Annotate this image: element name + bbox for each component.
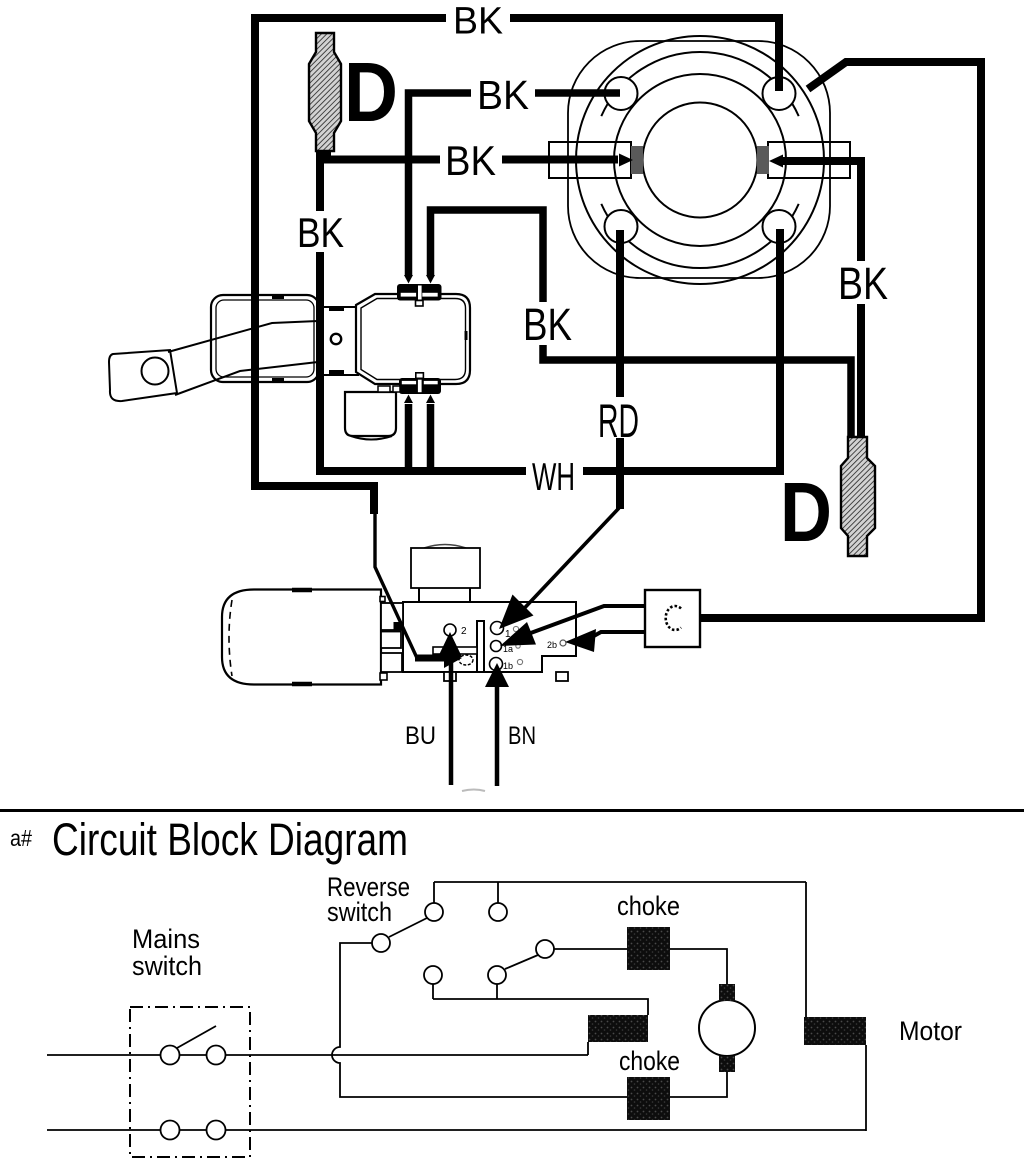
reverse switch top rail: [434, 882, 806, 903]
reverse switch circle C: [372, 934, 390, 952]
choke middle block: [588, 1015, 648, 1042]
switch terminal clip bar bottom: [399, 378, 441, 394]
brush holder left: [549, 142, 631, 178]
wire C lower to terminal 2b: [592, 632, 645, 637]
svg-text:BK: BK: [297, 209, 344, 256]
trigger mid pivot: [331, 334, 341, 344]
brush D1 top-left: [309, 33, 341, 151]
wire BK3 brush1 to left brush holder: [327, 150, 618, 160]
wire C upper to terminal 1a: [528, 606, 645, 634]
switch terminal clip bar top: [397, 284, 442, 301]
mains switch pole top circles: [161, 1046, 180, 1065]
controller foot right: [556, 672, 568, 681]
field coil top outer arc: [601, 52, 798, 116]
svg-text:choke: choke: [619, 1046, 680, 1076]
terminal 2b left: [459, 655, 473, 665]
interface rect C: [381, 653, 402, 672]
controller knob cap: [424, 545, 466, 549]
interface rect B: [381, 632, 401, 649]
field stator lamination square: [568, 41, 830, 278]
controller step line: [542, 655, 577, 657]
wire BN arrow: [495, 684, 500, 786]
wire BU arrow: [449, 654, 454, 785]
coil mount rects: [378, 386, 400, 392]
motor brush top: [719, 984, 735, 1001]
svg-text:BU: BU: [405, 722, 436, 750]
wire WH horizontal: [316, 467, 784, 475]
switch coil cylinder: [345, 392, 396, 436]
svg-text:BK: BK: [523, 299, 572, 350]
arrow C to terminal 2b: [565, 629, 596, 652]
wire BK main top loop: [255, 18, 779, 514]
svg-text:Circuit Block Diagram: Circuit Block Diagram: [52, 814, 408, 865]
field stator outer circle: [576, 36, 824, 284]
interface tiny top: [380, 597, 385, 602]
label BK3: [440, 137, 502, 184]
capacitor C box: [645, 590, 700, 647]
coil slot bottom-right: [763, 210, 796, 243]
label RD: [592, 394, 642, 447]
rotor bore: [643, 103, 758, 218]
interface tiny bottom: [380, 673, 387, 680]
controller knob neck: [419, 588, 470, 602]
terminal small circles: [513, 626, 518, 631]
controller knob: [411, 548, 480, 588]
arrow down clip t2: [426, 275, 435, 284]
brush left carbon: [631, 146, 643, 174]
wire WH vertical to stator: [776, 229, 784, 471]
clip slits top: [401, 293, 416, 297]
svg-text:BK: BK: [445, 137, 496, 184]
wire mains line top: [47, 1042, 588, 1055]
trigger mid block: [319, 307, 358, 375]
wire top rail down to motor brush right: [805, 882, 807, 1017]
terminal 1b: [490, 658, 503, 671]
arrow up clip b2: [426, 395, 435, 404]
svg-text:choke: choke: [617, 891, 680, 921]
wire stub up to clip b2: [427, 404, 435, 470]
wire arrow into terminal 2b left: [415, 655, 444, 662]
switch body inner line: [361, 299, 466, 380]
reverse switch circles A B: [425, 903, 443, 921]
coil slot top-right: [763, 77, 796, 110]
svg-text:D: D: [344, 45, 398, 139]
wire BK2 and drop to clip t1: [409, 93, 621, 276]
trigger housing inner line: [216, 300, 314, 377]
cable mark: [462, 790, 485, 792]
label BK left-mid: [293, 209, 351, 256]
svg-text:2b: 2b: [547, 640, 557, 650]
wire RD vertical: [616, 230, 624, 509]
wire C to vertical with hop: [332, 943, 627, 1097]
switch body right notch: [465, 331, 468, 340]
wire motor bottom to choke lower: [670, 1072, 727, 1097]
arrow up clip b1: [404, 395, 413, 404]
controller left clip black: [394, 622, 404, 630]
arrow into right brush: [769, 155, 783, 168]
wire brush right down to bottom line: [865, 1045, 867, 1131]
switch body: [356, 294, 470, 384]
clip tab top: [416, 301, 424, 307]
mains switch pole bottom circles: [161, 1121, 180, 1140]
clip slits bottom: [402, 381, 416, 384]
svg-text:BK: BK: [477, 72, 529, 118]
wire stub up to clip b1: [405, 404, 413, 470]
controller body: [403, 602, 576, 672]
trigger switch housing: [211, 295, 319, 382]
wire RD diagonal to terminal 1: [517, 508, 619, 616]
arrow C to terminal 1a: [500, 622, 536, 646]
wire clip t2 loop to lower brush: [431, 210, 852, 436]
motor housing left seam: [229, 600, 232, 676]
controller divider bar: [477, 621, 484, 672]
terminal 1a: [491, 641, 502, 652]
svg-text:BK: BK: [453, 1, 503, 43]
svg-text:BN: BN: [508, 722, 536, 750]
svg-text:switch: switch: [132, 951, 202, 981]
clip tab bottom: [416, 373, 424, 379]
svg-text:1b: 1b: [503, 661, 513, 671]
choke lower block: [627, 1077, 670, 1120]
switch coil cylinder bottom arc: [351, 436, 392, 440]
motor housing: [222, 590, 381, 685]
svg-text:Mains: Mains: [132, 924, 200, 954]
trigger lever handle: [109, 350, 177, 401]
terminal 2: [444, 624, 456, 636]
motor brush right block: [804, 1017, 866, 1045]
wire F to choke upper: [554, 948, 627, 950]
reverse switch lever bottom: [505, 955, 538, 969]
label WH: [526, 456, 583, 499]
brush D2 lower-right: [841, 437, 875, 556]
wire right brush holder to lower brush: [780, 161, 861, 436]
arrow RD terminal 1: [499, 595, 534, 630]
label BK2: [471, 72, 535, 118]
trigger lever hole: [142, 358, 169, 385]
field coil bottom outer arc: [601, 204, 798, 268]
controller foot left: [444, 672, 456, 681]
reverse switch circles D E F: [424, 966, 442, 984]
wire trigger thin to controller: [375, 512, 417, 658]
coil slot top-left: [605, 77, 638, 110]
separator line: [0, 809, 1024, 812]
svg-text:D: D: [780, 465, 832, 559]
wire brush1 to WH line: [316, 150, 324, 467]
arrow into left brush: [619, 154, 633, 167]
brush holder right: [768, 142, 850, 178]
motor circle: [699, 1000, 755, 1056]
svg-text:WH: WH: [532, 456, 575, 499]
label BK top: [446, 1, 510, 43]
reverse switch lower rail: [433, 984, 648, 1015]
reverse switch lever top: [389, 918, 427, 937]
label BK stator-left: [518, 299, 578, 350]
arrow down clip t1: [404, 275, 413, 284]
coil slot bottom-left: [605, 210, 638, 243]
svg-text:switch: switch: [327, 897, 392, 927]
wire top-right to C: [701, 62, 981, 618]
label BK right: [833, 258, 893, 309]
mains switch lever: [177, 1026, 216, 1048]
wire choke upper to motor top: [670, 949, 727, 984]
choke upper block: [627, 927, 670, 970]
wire mains line bottom: [47, 1129, 866, 1131]
mains switch box: [130, 1007, 250, 1157]
controller h-bar: [433, 647, 477, 654]
field pole circle: [614, 74, 786, 246]
capacitor C letter: [666, 606, 681, 630]
svg-text:BK: BK: [838, 258, 888, 309]
terminal 1: [491, 622, 504, 635]
svg-text:2: 2: [461, 626, 467, 637]
trigger lever arm: [168, 321, 318, 395]
motor brush bottom: [719, 1056, 735, 1072]
interface rect A: [381, 603, 403, 630]
svg-text:a#: a#: [10, 825, 32, 851]
brush right carbon: [757, 146, 769, 174]
svg-text:RD: RD: [598, 394, 639, 447]
motor housing ticks: [292, 590, 312, 684]
trigger mid ticks: [272, 297, 344, 380]
svg-text:Motor: Motor: [899, 1016, 962, 1046]
